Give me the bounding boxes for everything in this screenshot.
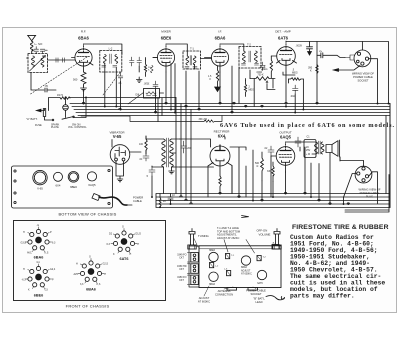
tube location panel	[12, 166, 113, 208]
wire antenna to V1 grid	[27, 52, 75, 62]
leader arrows chassis labels	[194, 239, 256, 297]
plate line V2 to T1	[166, 44, 212, 69]
A batt labels	[26, 117, 87, 129]
tube V1 6BA6 (R.F.)	[72, 30, 94, 72]
svg-text:POWER CABLE: POWER CABLE	[360, 191, 380, 195]
cap .0001	[144, 81, 159, 89]
electrolytic 20/25V	[304, 140, 316, 158]
svg-text:CKT: CKT	[179, 279, 184, 282]
socket caption	[352, 72, 374, 83]
V3 cathode resistor	[208, 66, 220, 92]
chassis tube 6BE6 top-left	[209, 249, 218, 262]
svg-text:.0039: .0039	[296, 45, 303, 48]
T-2 adjust screw	[257, 256, 266, 261]
socket S3 6BE6	[22, 261, 56, 297]
svg-text:K,S: K,S	[97, 283, 101, 286]
coupling cap 2+	[317, 50, 345, 58]
power transformer	[146, 136, 180, 167]
heater wire with 33K resistor	[81, 116, 222, 123]
label: B battery lead	[253, 297, 265, 304]
buffer cap 200 across secondary	[181, 141, 192, 153]
tube V5 6X4 rectifier	[208, 130, 232, 177]
wires vibrator to rectifier	[164, 139, 214, 194]
svg-text:-200: -200	[187, 147, 192, 150]
svg-text:G2,S: G2,S	[103, 263, 109, 266]
svg-text:-G: -G	[37, 224, 40, 227]
svg-text:ADJUST AT 262KC: ADJUST AT 262KC	[217, 236, 239, 240]
svg-text:BOTTOM VIEW OF CHASSIS: BOTTOM VIEW OF CHASSIS	[58, 212, 116, 217]
svg-text:G: G	[89, 256, 91, 259]
svg-text:6AT6: 6AT6	[119, 257, 128, 261]
svg-text:SOCKET: SOCKET	[357, 79, 368, 83]
chassis tube right	[257, 270, 266, 285]
Firestone description text	[290, 234, 385, 299]
svg-text:PLATE: PLATE	[51, 126, 59, 129]
plate cap .01	[295, 136, 310, 148]
svg-text:T-1: T-1	[190, 47, 194, 51]
svg-text:560: 560	[73, 78, 78, 82]
vibrator V-65	[109, 131, 141, 182]
filter resistor 500	[255, 152, 263, 181]
svg-text:MEG: MEG	[249, 89, 255, 92]
svg-text:AVC: AVC	[27, 252, 32, 255]
power cable socket	[334, 42, 378, 104]
diode 1N72 label	[57, 94, 64, 97]
wire hop marks	[82, 102, 349, 204]
svg-text:MIXER: MIXER	[161, 30, 171, 34]
svg-text:L- SO: L- SO	[35, 42, 44, 46]
svg-text:G2,4: G2,4	[50, 268, 56, 271]
A battery lead	[37, 98, 87, 121]
det drop wires	[239, 68, 275, 107]
svg-text:6AQ5: 6AQ5	[88, 183, 96, 187]
svg-text:V-65: V-65	[113, 134, 122, 139]
svg-text:+ M: + M	[306, 153, 310, 156]
panel knob V-65	[33, 170, 47, 190]
svg-text:FIRESTONE TIRE & RUBBER: FIRESTONE TIRE & RUBBER	[292, 224, 389, 231]
svg-text:R.F.: R.F.	[81, 30, 87, 34]
svg-text:6BE6: 6BE6	[34, 293, 44, 297]
svg-text:AT 600KC: AT 600KC	[198, 299, 210, 303]
osc coil box DI8	[136, 89, 160, 99]
svg-text:.0001: .0001	[144, 83, 151, 86]
svg-text:K,S: K,S	[45, 252, 49, 255]
gang diagonal second section	[103, 73, 120, 96]
svg-text:CKT: CKT	[179, 257, 184, 260]
cap .0002	[256, 62, 265, 74]
svg-text:PLUG: PLUG	[366, 195, 373, 199]
6AQ5 grid cap	[264, 146, 274, 156]
svg-text:TUNING: TUNING	[198, 234, 209, 238]
label: antenna connection	[215, 289, 233, 297]
svg-text:MEG: MEG	[292, 72, 298, 75]
power cable from panel	[92, 194, 132, 206]
svg-text:6BA6: 6BA6	[209, 283, 216, 286]
buffer cap	[139, 154, 149, 161]
svg-text:WIRING VIEW OF: WIRING VIEW OF	[352, 72, 374, 76]
ground (antenna section)	[31, 73, 56, 93]
svg-text:FRONT OF CHASSIS: FRONT OF CHASSIS	[66, 304, 110, 309]
svg-text:Ω: Ω	[257, 165, 259, 168]
svg-text:6BA6: 6BA6	[215, 36, 226, 41]
V2 grid wire	[146, 58, 158, 61]
svg-text:6BA6: 6BA6	[34, 256, 44, 260]
svg-text:DI8: DI8	[136, 94, 140, 97]
svg-text:POWER CABLE: POWER CABLE	[353, 75, 373, 79]
tube V6 6AQ5 output	[271, 131, 295, 173]
chassis mid labels	[241, 266, 252, 276]
svg-text:LEAD: LEAD	[255, 300, 262, 304]
power cable label	[133, 196, 143, 204]
svg-text:25V: 25V	[306, 149, 311, 152]
chassis box	[199, 246, 281, 288]
top B+ rail	[286, 42, 389, 104]
plate line V1	[84, 44, 122, 55]
caption: front of chassis	[66, 304, 110, 309]
svg-text:DET. - AMP: DET. - AMP	[275, 30, 291, 34]
L-3 adjust screw	[224, 269, 231, 276]
svg-text:6BE6: 6BE6	[161, 36, 172, 41]
svg-text:VOLUME: VOLUME	[259, 233, 271, 237]
svg-text:100: 100	[139, 143, 144, 146]
fuse tag on chassis right	[272, 242, 279, 250]
tube V3 6BA6 (I.F.)	[205, 30, 229, 72]
chassis connectors left	[187, 246, 199, 287]
svg-text:6X4: 6X4	[56, 183, 61, 187]
svg-text:VOL. CONTROL: VOL. CONTROL	[68, 126, 87, 129]
bus end ticks above chassis	[242, 216, 249, 218]
V4 grid resistor 2 MEG	[262, 56, 273, 78]
svg-text:AVC: AVC	[74, 273, 79, 276]
svg-text:L-2: L-2	[109, 47, 113, 51]
osc gang dashed link	[128, 93, 144, 105]
IF transformer T-2 (dashed box)	[239, 43, 261, 68]
svg-text:-6.3: -6.3	[22, 279, 27, 282]
RF tuning coils (dashed box)	[28, 54, 48, 73]
right side vertical rail	[386, 104, 390, 208]
svg-text:CKT: CKT	[179, 268, 184, 271]
bias network at bus left end	[159, 194, 175, 208]
chassis tube middle	[241, 256, 250, 265]
speaker	[326, 140, 340, 157]
T-1 adjust screw	[226, 254, 235, 259]
caption: bottom view of chassis	[58, 212, 116, 217]
label: adjust at 600kc	[198, 296, 210, 303]
output transformer	[286, 141, 325, 154]
tube V2 6BE6 (mixer)	[153, 30, 175, 72]
volume shaft	[273, 229, 281, 250]
cathode resistor 560	[73, 72, 86, 86]
buffer resistor 100	[139, 136, 147, 154]
plug caption	[358, 188, 380, 199]
bus wires top section	[49, 97, 391, 116]
resistor 2 MEG	[244, 81, 254, 97]
socket diagram box	[14, 221, 166, 301]
panel knob 6X4	[54, 172, 63, 187]
wire speaker to plug	[388, 103, 390, 105]
B+ wiring drops	[208, 137, 271, 201]
bus drop wires	[84, 63, 304, 113]
svg-text:6AT6: 6AT6	[278, 36, 289, 41]
ground V1 cathode	[81, 86, 87, 91]
coil L1	[30, 41, 43, 53]
B lead cable curl	[266, 296, 285, 300]
svg-text:.002: .002	[290, 95, 295, 98]
svg-text:POWER: POWER	[133, 196, 143, 200]
gang tuning dashed link	[31, 57, 88, 94]
chassis tube bottom-left	[209, 272, 218, 286]
svg-text:SOCKET: SOCKET	[250, 292, 261, 296]
cap .5	[146, 166, 155, 178]
volume label	[257, 229, 271, 237]
svg-text:H: H	[23, 268, 25, 271]
RF transformer L-2 (dashed box)	[100, 47, 122, 73]
socket S4 6BA6	[74, 256, 109, 292]
svg-text:G3,S: G3,S	[21, 242, 27, 245]
note leader lines	[224, 240, 255, 254]
cap .002	[290, 85, 298, 98]
svg-text:D1,D: D1,D	[136, 233, 142, 236]
volume pot 750K	[250, 73, 275, 84]
svg-text:MEG: MEG	[262, 68, 268, 71]
svg-text:FUSE: FUSE	[35, 124, 42, 127]
tube V4 6AT6 (det-amp)	[271, 30, 296, 72]
svg-text:CABLE: CABLE	[133, 199, 142, 203]
label: power cable socket	[246, 289, 266, 297]
power socket bump	[248, 288, 258, 291]
svg-text:6AT6: 6AT6	[257, 282, 263, 285]
svg-text:750 K: 750 K	[257, 73, 264, 76]
antenna	[28, 35, 36, 41]
svg-text:6AQ5: 6AQ5	[280, 135, 292, 140]
cap .05 mid	[118, 73, 123, 86]
rectifier cathode resistor	[219, 176, 221, 194]
osc adjust screw	[210, 263, 219, 268]
tuning label	[198, 234, 209, 238]
lower bus wires	[156, 104, 390, 213]
T-1/T-2 adjustment note	[217, 226, 240, 240]
plate line V3 to T2	[220, 44, 244, 51]
svg-text:6BA6: 6BA6	[78, 36, 89, 41]
svg-text:6BE6: 6BE6	[70, 185, 77, 189]
socket S2 6AT6	[107, 226, 142, 262]
svg-text:CONNECTION: CONNECTION	[215, 293, 233, 297]
plate cap .0039 with ground	[296, 42, 313, 56]
svg-text:33K 2W: 33K 2W	[199, 118, 208, 121]
inter-chassis cable verticals	[176, 98, 191, 205]
svg-text:AT 600KC: AT 600KC	[241, 273, 252, 276]
note: 6AV6 substitution	[220, 122, 394, 129]
svg-text:H: H	[23, 231, 25, 234]
svg-text:WIRING VIEW OF: WIRING VIEW OF	[358, 188, 380, 192]
extra drops	[158, 64, 175, 122]
bias resistor 330	[267, 162, 274, 181]
Firestone title	[292, 224, 389, 231]
chassis top view: tuning shaft	[188, 229, 196, 250]
svg-text:6AV6 Tube used in place of 6AT: 6AV6 Tube used in place of 6AT6 on some …	[220, 122, 394, 129]
mixer grid caps	[130, 57, 154, 82]
svg-text:POWER CABLE: POWER CABLE	[246, 289, 266, 293]
lower bus drops	[146, 147, 340, 204]
svg-text:parts may differ.: parts may differ.	[290, 292, 355, 299]
connector labels	[177, 254, 187, 283]
panel knob 6BE6	[68, 172, 79, 190]
antenna connector bump	[227, 288, 237, 291]
svg-text:I.F.: I.F.	[218, 30, 222, 34]
socket S1 6BA6	[21, 224, 56, 260]
plug to rail wires	[340, 157, 364, 204]
svg-text:ANTENNA: ANTENNA	[218, 289, 231, 293]
resistor .5 MEG	[289, 69, 304, 81]
svg-text:G: G	[122, 226, 124, 229]
svg-text:V-65: V-65	[37, 186, 43, 190]
svg-text:"A" BATT.: "A" BATT.	[26, 117, 38, 121]
svg-text:6BA6: 6BA6	[86, 288, 96, 292]
resistor 390K	[308, 65, 318, 74]
svg-text:H: H	[130, 253, 132, 256]
IF transformer T-1 (dashed box)	[183, 47, 201, 70]
panel knob 6AQ5	[87, 172, 96, 187]
B+ vertical rail	[316, 42, 318, 104]
trimmer caps C1 C2	[32, 47, 47, 54]
svg-text:H: H	[76, 263, 78, 266]
power cable plug	[344, 161, 378, 204]
svg-text:6BE6: 6BE6	[209, 249, 216, 252]
